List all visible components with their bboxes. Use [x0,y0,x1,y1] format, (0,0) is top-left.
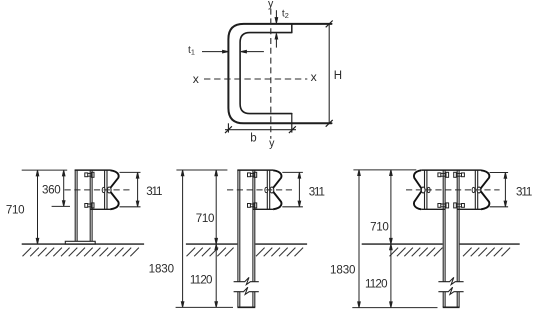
ground line right segment [460,243,520,245]
rail bottom edge line [253,208,273,210]
top extension line [176,169,227,171]
W-beam profile bumps [272,170,281,209]
left valley bolt washer [427,187,430,192]
post bottom edge [443,306,460,308]
360 lower extension line [52,205,70,207]
b dimension tick right [289,126,296,133]
360 dimension line [62,170,64,206]
left valley bolt head [421,187,425,193]
bottom extension line [176,306,233,308]
H dimension tick top [326,21,333,28]
top bolt [85,172,94,177]
top extension line [353,169,416,171]
bottom bolt [85,203,94,208]
ground line left segment [362,243,443,245]
b dimension line [225,129,296,131]
channel inner outline [240,33,292,114]
svg-text:710: 710 [6,204,24,217]
right bottom bolt [454,203,465,208]
311 dimension line (view1) [136,173,139,207]
post flange lines (below break) [238,292,255,307]
base plate [65,241,95,244]
311 extension lines (view2) [282,172,303,206]
left W-beam back lines [425,170,427,209]
right valley bolt head [477,187,481,193]
710 dimension line [215,170,218,244]
assembly top edge line [237,169,273,171]
right W-beam back lines [475,170,477,209]
311 dimension line (view3) [504,173,507,207]
710 dimension line [390,170,393,244]
svg-text:1830: 1830 [149,262,174,275]
channel flange tip (top) [291,24,293,33]
t2 arrow up (to top flange inner face) [275,34,278,48]
1120 dimension line [390,244,393,307]
311 dimension line (view2) [298,173,301,207]
svg-text:311: 311 [516,186,532,199]
rail centre line (dashed) [227,189,295,191]
right top bolt [454,172,465,177]
y-y axis (dashed) [270,9,272,139]
left top bolt [438,172,449,177]
post break symbol upper [234,277,259,284]
t1 arrow left (to web inner face) [241,50,264,53]
t1 arrow right (to web outer face) [202,50,228,53]
svg-text:311: 311 [146,185,162,198]
assembly top edge line [421,169,481,171]
311 extension lines (view1) [120,172,141,206]
rail centre line (dashed) [406,189,500,191]
H dimension tick bottom [326,120,333,127]
left W-beam profile bumps [414,170,422,209]
valley bolt head [270,187,274,193]
1830 dimension line [181,170,184,307]
bottom bolt [248,203,257,208]
svg-text:H: H [334,70,342,82]
bottom extension line [352,307,437,309]
valley bolt head [107,187,111,193]
post break symbol upper [438,277,463,284]
rail bottom edge line left [421,208,445,210]
ground hatching right [256,248,303,257]
svg-text:1120: 1120 [365,278,387,291]
1120 dimension line [215,244,218,307]
top extension line [22,169,67,171]
svg-text:y: y [268,0,274,10]
ground line right segment [255,243,307,245]
svg-text:710: 710 [370,221,388,234]
web extension line to b dimension [227,123,229,132]
svg-text:y: y [269,138,275,150]
valley bolt washer [265,187,268,192]
svg-text:360: 360 [42,183,60,196]
311 extension lines (view3) [490,173,509,207]
svg-text:x: x [193,72,199,86]
post flange lines [75,170,92,241]
W-beam back lines [105,170,107,209]
post flange lines (below break) [443,292,459,307]
rail bottom edge line [90,208,110,210]
right valley bolt washer [472,187,475,192]
710 dimension line [36,170,39,244]
rail centre line (dashed) [65,189,132,191]
right W-beam profile bumps [480,170,489,209]
rail bottom edge line right [457,208,481,210]
channel outer outline [228,24,331,123]
H dimension line [328,24,330,123]
W-beam back lines [267,170,269,209]
left bottom bolt [438,203,449,208]
b dimension tick left [225,126,232,133]
ground line [22,243,144,245]
post break symbol lower [234,287,259,294]
post flange lines (above break) [443,170,459,281]
top bolt [248,172,257,177]
svg-text:710: 710 [196,212,214,225]
valley bolt washer [102,187,105,192]
post bottom edge [237,306,255,308]
ground hatching left [187,248,234,257]
svg-text:t2: t2 [282,9,289,20]
ground hatching right [463,248,510,257]
svg-text:311: 311 [309,186,325,199]
svg-text:b: b [250,132,256,144]
assembly top edge line [75,169,111,171]
ground hatching left [390,248,443,257]
t2 arrow down (to top flange outer face) [275,10,278,23]
svg-text:x: x [311,70,317,84]
svg-text:1120: 1120 [190,274,212,287]
x-x axis (dash-dot) [204,78,307,80]
svg-text:1830: 1830 [330,264,355,277]
ground hatching [23,248,139,257]
post flange lines (above break) [238,170,255,281]
channel flange tip (bottom, extended to b dimension line) [291,114,293,133]
post break symbol lower [438,287,463,294]
ground line left segment [186,243,237,245]
1830 dimension line [358,170,361,308]
svg-text:t1: t1 [188,45,195,56]
W-beam profile bumps [109,170,118,209]
